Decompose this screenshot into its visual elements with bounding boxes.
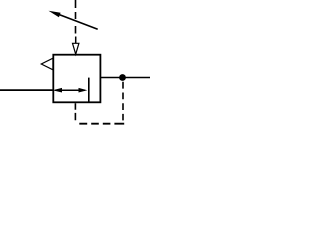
- vent triangle (left of body): [41, 58, 53, 70]
- regulator body box: [53, 55, 100, 103]
- adjustability arrowhead: [49, 11, 61, 18]
- spring setting open arrowhead: [73, 43, 79, 54]
- pilot line up into body bottom (dashed): [74, 103, 76, 120]
- flow path double arrow shaft: [55, 89, 85, 91]
- flow arrow left head: [53, 88, 62, 93]
- junction node: [119, 74, 126, 81]
- spring setting arrow solid shaft: [75, 37, 77, 48]
- outlet wire (right port): [100, 77, 150, 79]
- flow arrow right head: [79, 88, 88, 93]
- pilot sense line bottom run (dashed): [79, 123, 124, 125]
- spring pilot dashed line (top): [75, 0, 77, 34]
- adjustability arrow shaft: [57, 14, 98, 29]
- pilot sense line down from junction (dashed): [122, 82, 124, 121]
- inlet wire (left port): [0, 89, 53, 91]
- internal seat line: [88, 78, 90, 103]
